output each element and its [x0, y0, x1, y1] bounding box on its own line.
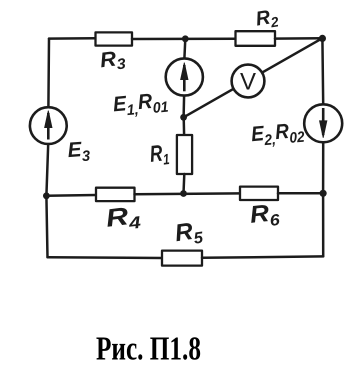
label R2 — [254, 5, 280, 32]
resistor R2 — [236, 31, 276, 46]
svg-text:Рис. П1.8: Рис. П1.8 — [96, 331, 201, 368]
label R5 — [173, 217, 205, 251]
wire top rail middle segment — [132, 38, 236, 41]
current source E1 — [166, 58, 203, 95]
wire left vertical lower — [46, 144, 48, 257]
resistor R6 — [240, 187, 278, 200]
label E2,R02 — [250, 119, 306, 151]
node at E1 top on rail — [182, 35, 189, 42]
current source E3 — [30, 107, 67, 144]
svg-text:R5: R5 — [173, 217, 205, 251]
svg-text:R1: R1 — [148, 139, 170, 170]
wire top rail right segment — [275, 37, 322, 40]
svg-text:E3: E3 — [67, 138, 91, 167]
current source E2 — [304, 104, 342, 142]
wire middle branch upper — [183, 39, 186, 59]
wire middle branch above R1 — [182, 117, 185, 135]
svg-text:R6: R6 — [249, 199, 281, 232]
wire right vertical upper — [321, 38, 324, 104]
node below E1 — [180, 114, 187, 121]
arrow of source E3 (up) — [45, 111, 52, 140]
wire middle rail center segment — [135, 192, 241, 195]
label E3 — [67, 138, 91, 167]
wire middle rail left segment — [46, 194, 96, 197]
resistor R4 — [96, 188, 135, 201]
resistor R5 — [162, 251, 202, 266]
label R3 — [99, 46, 128, 75]
wire right vertical middle — [322, 142, 325, 193]
resistor R3 — [96, 32, 133, 45]
arrow of source E2 (down) — [320, 108, 327, 138]
wire middle branch below R1 — [182, 174, 185, 194]
wire middle rail right segment — [278, 192, 323, 195]
svg-text:R2: R2 — [254, 5, 280, 32]
wire top rail left segment — [49, 37, 96, 40]
svg-text:R4: R4 — [104, 201, 142, 236]
label R4 — [104, 201, 142, 236]
svg-text:E2,R02: E2,R02 — [250, 119, 306, 151]
label E1,R01 — [112, 89, 169, 121]
label R6 — [249, 199, 281, 232]
svg-text:V: V — [240, 69, 256, 96]
node at top-right corner — [319, 35, 326, 42]
node middle rail center — [180, 190, 187, 197]
wire left vertical upper — [47, 39, 50, 108]
resistor R1 — [177, 135, 192, 174]
arrow of source E1 (up) — [181, 63, 188, 92]
wire bottom rail right segment — [202, 256, 323, 257]
svg-text:R3: R3 — [99, 46, 128, 75]
wire diagonal from node to top-right corner — [184, 38, 323, 117]
wire middle branch below E1 — [182, 96, 185, 118]
wire right vertical lower — [322, 193, 325, 256]
node middle rail right — [320, 190, 327, 197]
node middle rail left — [43, 192, 50, 199]
wire bottom rail left segment — [48, 256, 163, 259]
label R1 — [148, 139, 170, 170]
voltmeter V — [232, 65, 265, 98]
svg-text:E1,R01: E1,R01 — [112, 89, 169, 121]
